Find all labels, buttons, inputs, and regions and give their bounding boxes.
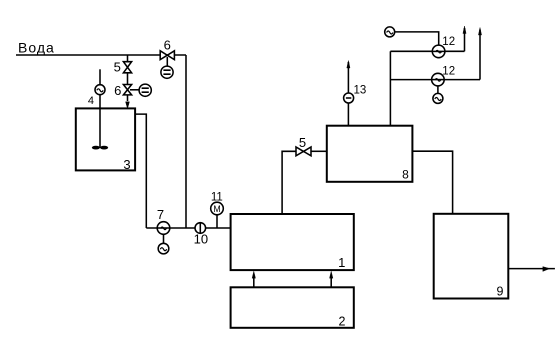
valve 6 (on water line) — [160, 51, 174, 60]
svg-text:12: 12 — [442, 36, 455, 48]
wire vent with instrument 13 — [347, 62, 349, 126]
wire motor 11 stem — [216, 215, 218, 228]
wire 12b up arrow — [479, 30, 481, 80]
instrument 12a — [432, 45, 445, 58]
wire right downcomer from water line — [185, 55, 187, 228]
svg-text:10: 10 — [194, 232, 208, 247]
block 2 — [231, 287, 354, 328]
wire branch to tank (through valves 5,6) — [127, 55, 129, 101]
transmitter (~) of 12b — [433, 93, 443, 103]
svg-text:6: 6 — [164, 38, 171, 53]
instrument 13 — [344, 93, 354, 103]
svg-text:13: 13 — [354, 85, 367, 97]
svg-text:7: 7 — [157, 207, 164, 222]
svg-text:5: 5 — [299, 135, 306, 150]
arrow block9 outlet — [543, 267, 550, 272]
svg-text:11: 11 — [211, 192, 223, 204]
tank 3 — [76, 108, 135, 170]
svg-text:4: 4 — [88, 95, 94, 107]
wire suction header into block 1 — [146, 227, 230, 229]
transmitter (~) of 12a — [385, 27, 395, 37]
svg-text:5: 5 — [114, 60, 121, 75]
wire 12a up arrow — [464, 28, 466, 51]
wire block8 to block9 — [412, 151, 452, 214]
wire/arrow block2 to block1 (right) — [330, 277, 332, 287]
wire block9 outlet — [508, 268, 555, 270]
agitator impeller — [92, 146, 108, 150]
instrument circle (two-bar) of tank feed valve 6 — [139, 84, 151, 96]
wire valve 5 to block 8 — [311, 150, 327, 152]
instrument 10 (flow element) — [195, 223, 206, 234]
valve 5 (horizontal, block 8 feed) — [296, 147, 311, 156]
svg-text:2: 2 — [338, 315, 345, 329]
transmitter circle (~) below 7 — [158, 243, 169, 254]
block 9 — [434, 214, 509, 299]
valve 5 (vertical, on tank feed) — [123, 62, 131, 73]
wire block8 top riser — [389, 51, 391, 125]
wire line through instrument 12a — [390, 50, 464, 52]
wire valve 6 actuator stem — [166, 57, 168, 66]
wire/arrow block2 to block1 (left) — [253, 277, 255, 287]
wire valve 6 actuator link — [130, 89, 139, 91]
svg-text:12: 12 — [442, 66, 455, 78]
wire 12a transmitter link — [395, 32, 439, 45]
wire 12b transmitter link — [437, 86, 439, 94]
svg-text:8: 8 — [402, 167, 409, 181]
instrument circle (two-bar) of valve 6 on water line — [161, 66, 173, 78]
wire line through instrument 12b — [390, 79, 480, 81]
wire tank outlet to pump suction — [135, 114, 146, 228]
svg-text:9: 9 — [497, 285, 504, 299]
agitator shaft (lower) — [99, 95, 101, 148]
block 8 — [327, 126, 413, 182]
wire block1 to valve 5 riser — [282, 151, 296, 214]
wire water supply line — [16, 54, 186, 56]
svg-text:M: M — [213, 204, 220, 214]
agitator motor shaft (upper) — [99, 69, 101, 84]
instrument 12b — [432, 73, 445, 86]
motor circle (agitator drive) — [95, 85, 105, 95]
svg-text:1: 1 — [338, 255, 345, 270]
arrow into tank 3 — [126, 102, 130, 109]
valve 6 (vertical, on tank feed) — [123, 85, 131, 95]
motor 11 (M circle) — [211, 202, 224, 215]
block 1 — [231, 214, 354, 270]
svg-text:6: 6 — [114, 83, 121, 98]
svg-text:Вода: Вода — [18, 40, 55, 56]
instrument 7 (on-line circle) — [157, 222, 170, 235]
svg-text:3: 3 — [123, 157, 130, 172]
wire link 7 to transmitter — [163, 234, 165, 243]
